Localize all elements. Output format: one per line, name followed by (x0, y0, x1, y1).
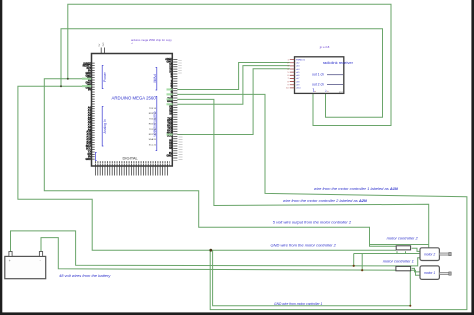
black frame left bar (0, 0, 2, 315)
svg-text:Analog In: Analog In (103, 119, 107, 133)
svg-text:out 2 ch: out 2 ch (312, 82, 324, 86)
svg-text:ARDUINO MEGA 2560: ARDUINO MEGA 2560 (112, 96, 157, 101)
svg-text:SCL 21: SCL 21 (149, 144, 157, 146)
wire: GND1 inner loop controller 1 to dot (213, 250, 411, 306)
svg-text:Power: Power (103, 71, 107, 81)
svg-text:PWM: PWM (153, 74, 157, 82)
svg-text:motor controller 2: motor controller 2 (387, 236, 419, 241)
wire: A2N branch to controller 2 (370, 244, 429, 246)
wire: battery minus 48V (41, 238, 421, 276)
svg-text:arduino mega 2560 chip for cop: arduino mega 2560 chip for copy (131, 38, 172, 42)
svg-text:GND: GND (85, 158, 91, 161)
arduino mega chip body (92, 54, 173, 167)
chip right pin ticks outside (173, 59, 177, 160)
svg-text:SDA 20: SDA 20 (149, 138, 157, 141)
wire: chip to receiver ch wire 2 (177, 66, 289, 105)
battery body (5, 256, 46, 278)
svg-text:+: + (9, 259, 11, 263)
svg-text:jp u-r18: jp u-r18 (319, 45, 330, 49)
right outside faint labels (179, 134, 183, 160)
wire: chip to receiver ch wire 1 (177, 63, 289, 90)
svg-text:motor 1: motor 1 (424, 271, 435, 275)
wire: battery plus 48V (11, 231, 421, 266)
motor 2 shaft (439, 253, 449, 255)
junction on 5V wire at chip power pin (67, 78, 69, 80)
wire: chip to receiver ch wire 3 (177, 69, 289, 135)
analog in bracket (102, 107, 103, 147)
svg-text:wire from the motor controller: wire from the motor controller 1 labeled… (314, 186, 398, 191)
svg-text:wire from the motor controller: wire from the motor controller 2 labeled… (283, 198, 367, 203)
wire: shared rail line (354, 253, 429, 255)
svg-text:RX0: RX0 (167, 100, 172, 103)
chip top pins (100, 48, 102, 54)
receiver left pin comb (290, 59, 295, 88)
svg-text:motor controller 1: motor controller 1 (383, 259, 414, 264)
battery terminal 1 (9, 252, 12, 257)
wire: GND from chip to motor controller 2 (18, 86, 396, 250)
wire: receiver VCC loop (61, 29, 383, 118)
wire: drop to +48 rail (353, 254, 355, 266)
motor controller 2 body (396, 246, 410, 250)
black frame bottom bar (0, 312, 474, 315)
battery terminal 2 (39, 252, 42, 257)
wire: controller 2 to motor 2 upper (412, 248, 421, 251)
black frame right bar (471, 0, 474, 315)
junction on GND wire at chip power pin (60, 85, 62, 87)
wire: controller 2 bottom pin b (405, 251, 407, 253)
small bottom-left bracket (95, 153, 96, 161)
svg-text:Communication: Communication (153, 112, 157, 137)
svg-text:48 volt wires from the battery: 48 volt wires from the battery (59, 273, 111, 278)
wire: drop to -48 rail (361, 254, 363, 271)
svg-text:5 volt wire output from the mo: 5 volt wire output from the motor contro… (273, 219, 352, 224)
svg-text:motor 2: motor 2 (424, 252, 435, 256)
junction GND wires node (209, 249, 212, 252)
chip bottom pin comb (95, 166, 168, 176)
motor controller 1 body (396, 266, 411, 270)
pwm bracket (156, 68, 157, 91)
svg-text:5V: 5V (88, 89, 91, 92)
junction on +48V rail (353, 265, 355, 267)
communication bracket (156, 97, 157, 151)
svg-text:PWM/ch1: PWM/ch1 (296, 59, 306, 61)
svg-text:GND wire from the motor contro: GND wire from the motor controller 2 (271, 242, 337, 247)
wire: controller 1 to motor 1 upper (412, 268, 421, 272)
junction on -48V rail (361, 269, 363, 271)
motor 1 shaft (439, 273, 449, 275)
svg-text:DIGITAL: DIGITAL (123, 156, 139, 161)
wire: receiver GND big top loop (68, 4, 391, 125)
svg-text:-: - (40, 259, 41, 263)
wire: controller 2 bottom pin a (396, 251, 398, 253)
motor 2 body (420, 248, 439, 261)
wire: AIN loop from chip around right edge (177, 94, 467, 309)
svg-text:TX3 14: TX3 14 (149, 108, 157, 110)
motor 1 body (420, 266, 439, 280)
svg-text:GND wire from motor controller: GND wire from motor controller 1 (274, 302, 323, 306)
power bracket (102, 66, 103, 89)
svg-text:radiolink receiver: radiolink receiver (323, 60, 354, 65)
green highlight connected pins right (167, 88, 173, 90)
svg-text:out 1 ch: out 1 ch (312, 73, 324, 77)
wire: 5V from chip to motor controller 2 (44, 79, 396, 246)
junction on bottom GND loop (409, 305, 411, 307)
chip left pin ticks inside (92, 63, 95, 161)
radiolink receiver body (295, 57, 344, 94)
svg-text:c1: c1 (131, 43, 133, 45)
svg-text:GND: GND (166, 154, 172, 157)
green highlight connected pins left (82, 78, 91, 80)
chip bottom inside number rows (95, 161, 170, 163)
wire: A2N wire from chip (177, 99, 428, 253)
